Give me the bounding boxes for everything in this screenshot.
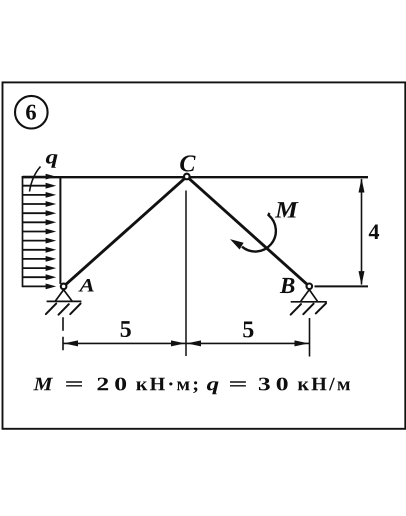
label q with leader — [30, 154, 58, 191]
dim arrow left outward — [64, 340, 78, 346]
formula text — [33, 378, 350, 395]
label 5 left — [121, 321, 131, 337]
distributed load q strip — [23, 174, 57, 290]
moment M arc — [230, 213, 276, 252]
support A hatching — [46, 304, 81, 315]
dim arrow into C from right — [187, 340, 201, 346]
support B triangle — [291, 290, 327, 302]
bar CB — [187, 177, 309, 287]
hinge C — [184, 174, 190, 180]
support A triangle — [47, 290, 82, 302]
extension line below A (dashed) — [62, 317, 64, 356]
bar AC — [64, 177, 187, 287]
vertical dimension line 4 — [359, 178, 365, 285]
label B — [280, 278, 295, 293]
extension line below C — [185, 191, 187, 357]
support B hatching — [291, 303, 326, 314]
dim arrow into C from left — [171, 340, 185, 346]
hinge B — [307, 284, 313, 290]
top chord line — [22, 176, 368, 178]
label 5 right — [243, 322, 253, 338]
label 4 — [369, 225, 379, 240]
left column line — [59, 177, 61, 284]
hinge A — [61, 284, 67, 290]
problem number badge 6 — [15, 96, 48, 129]
bottom right chord line — [315, 285, 369, 287]
label C — [180, 155, 195, 171]
label M — [275, 202, 299, 217]
border frame — [3, 82, 406, 428]
label A — [78, 279, 94, 292]
extension line below B — [309, 318, 311, 357]
horizontal dimension line — [63, 342, 310, 344]
dim arrow right outward — [295, 340, 309, 346]
